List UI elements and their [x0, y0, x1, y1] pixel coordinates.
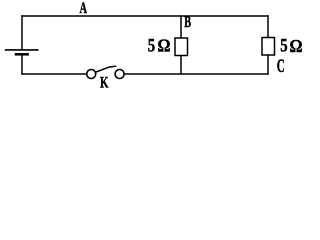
wire left vertical lower (battery to bottom) [21, 56, 23, 75]
svg-text:5: 5 [148, 35, 155, 56]
svg-text:B: B [184, 14, 191, 31]
svg-text:Ω: Ω [158, 36, 171, 56]
resistor R1 box (left branch) [175, 38, 188, 56]
switch K left contact circle [87, 70, 96, 79]
svg-text:C: C [277, 57, 285, 77]
svg-text:A: A [80, 0, 88, 17]
svg-text:K: K [100, 74, 109, 91]
wire right vertical upper [267, 16, 269, 38]
switch K blade [96, 66, 116, 72]
wire top (A to B to right corner) [22, 15, 268, 17]
battery E short plate [15, 53, 29, 56]
svg-text:5: 5 [280, 35, 287, 56]
battery E long plate [5, 49, 39, 51]
wire branch B lower [180, 56, 182, 75]
wire left vertical upper (to battery) [21, 16, 23, 50]
wire bottom right (switch to corner) [124, 73, 268, 75]
svg-text:Ω: Ω [290, 36, 303, 56]
switch K right contact circle [115, 70, 124, 79]
wire branch B upper [180, 16, 182, 38]
resistor R2 box (right branch) [262, 38, 275, 56]
wire bottom left (to switch) [22, 73, 86, 75]
wire right vertical lower [267, 55, 269, 74]
